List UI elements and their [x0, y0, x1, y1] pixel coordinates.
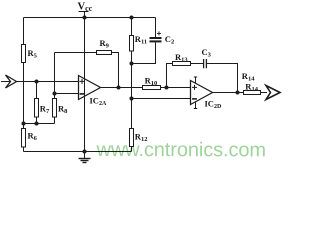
- node lower line junction: [130, 97, 134, 101]
- wire IC2D output line: [213, 92, 244, 94]
- svg-text:R6: R6: [28, 130, 38, 142]
- wire feedback riser to R13: [167, 64, 173, 88]
- resistor R8: [53, 99, 69, 118]
- node bus/R11 junction: [130, 16, 134, 20]
- resistor R9: [97, 38, 112, 55]
- wire ground bus: [24, 151, 132, 153]
- node inverting input junction: [53, 92, 57, 96]
- wire R11 top lead: [131, 18, 133, 36]
- svg-text:R9: R9: [100, 38, 110, 50]
- wire R11 bottom rail down to R12: [131, 51, 133, 129]
- resistor R14: [242, 71, 261, 95]
- svg-text:R5: R5: [28, 48, 38, 60]
- wire R9 right lead down to output: [112, 53, 119, 88]
- resistor R12: [130, 129, 148, 147]
- wire divider middle lead: [23, 63, 25, 129]
- wire R12 bottom lead: [131, 147, 133, 152]
- svg-text:C3: C3: [202, 47, 212, 59]
- svg-text:www.cntronics.com: www.cntronics.com: [95, 139, 265, 161]
- node ground junction: [83, 150, 87, 154]
- power Vcc terminal: [78, 2, 93, 18]
- op-amp U2D IC2D: [191, 77, 222, 110]
- svg-text:IC2A: IC2A: [90, 96, 107, 107]
- watermark www.cntronics.com: [95, 139, 265, 161]
- wire lower line to IC2D minus input: [132, 98, 191, 100]
- wire R7 top lead: [36, 82, 38, 99]
- node Vcc-bus junction: [83, 16, 87, 20]
- wire R10 to IC2D plus input: [161, 87, 191, 89]
- svg-text:R7: R7: [40, 103, 50, 115]
- svg-text:Vcc: Vcc: [78, 2, 93, 14]
- op-amp U2A IC2A: [79, 76, 107, 107]
- wire IC2A output line: [101, 87, 143, 89]
- svg-text:R8: R8: [58, 103, 68, 115]
- wire C3 to IC2D output: [207, 64, 238, 93]
- node input/R7 junction: [35, 80, 39, 84]
- node output/R13 feedback junction: [165, 86, 169, 90]
- svg-text:R12: R12: [135, 132, 148, 144]
- wire top Vcc bus: [24, 17, 156, 19]
- resistor R13: [173, 52, 191, 65]
- svg-text:R11: R11: [135, 34, 147, 46]
- wire R8 bottom lead: [54, 117, 56, 124]
- wire bottom-left connecting line: [24, 123, 55, 125]
- resistor R10: [143, 76, 161, 90]
- capacitor C2: [132, 18, 175, 64]
- resistor R5: [22, 45, 38, 63]
- wire input signal line: [1, 81, 79, 83]
- svg-text:C2: C2: [165, 34, 174, 46]
- svg-text:R10: R10: [145, 76, 158, 88]
- node output/R9 feedback junction: [117, 86, 121, 90]
- svg-text:IC2D: IC2D: [205, 99, 222, 110]
- resistor R6: [22, 129, 38, 148]
- wire inverting input line: [55, 93, 79, 95]
- resistor R11: [130, 34, 148, 51]
- ground symbol: [79, 152, 91, 163]
- node divider/R7-R8 bottoms: [22, 122, 26, 126]
- capacitor C3: [202, 47, 212, 69]
- svg-text:R13: R13: [175, 52, 188, 64]
- wire feedback vertical R9-left to R8-top: [54, 53, 56, 99]
- wire R13 to C3: [191, 63, 204, 65]
- wire R9 left run: [55, 52, 97, 54]
- node feedback/output junction: [236, 91, 240, 95]
- wire output line to arrow: [261, 92, 268, 94]
- resistor R7: [35, 99, 50, 118]
- wire Vcc rail down to ground: [84, 18, 86, 152]
- wire divider bottom lead: [23, 147, 25, 152]
- node R11/C2 junction: [130, 62, 134, 66]
- wire R7 bottom lead: [36, 117, 38, 124]
- wire left divider upper lead: [23, 18, 25, 45]
- svg-text:R14: R14: [245, 81, 258, 93]
- input arrow: [6, 75, 17, 88]
- output arrow: [266, 86, 280, 100]
- node R7 bottom junction: [35, 122, 39, 126]
